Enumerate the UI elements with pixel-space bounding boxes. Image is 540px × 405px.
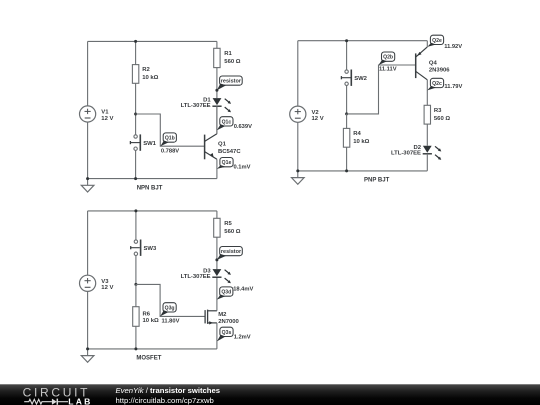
node SW1 bottom rail [134,177,137,180]
node top rail to SW2 [345,39,348,42]
node SW2/R4/base junction [345,112,348,115]
wire base net [136,114,205,146]
caption NPN BJT [137,185,163,191]
diode D1 LTL-307EE [181,97,231,112]
diode D2 LTL-307EE [391,145,441,160]
wire R1 to D1 [216,68,218,99]
svg-text:12 V: 12 V [312,116,324,122]
svg-text:12 V: 12 V [101,285,113,291]
wire V1 bottom [87,122,89,179]
wire Q1 collector [216,106,218,134]
svg-text:resistor: resistor [221,249,242,255]
svg-text:2N3906: 2N3906 [429,68,450,74]
resistor R1 [214,48,241,67]
svg-text:12 V: 12 V [101,116,113,122]
probe Q3s 1.2mV [217,327,251,341]
node top rail to R2 [134,40,137,43]
resistor R4 [343,128,369,147]
svg-text:R4: R4 [353,131,361,137]
svg-text:Q3g: Q3g [165,305,175,311]
svg-text:Q3d: Q3d [221,290,231,296]
svg-text:1.2mV: 1.2mV [234,335,251,341]
svg-text:PNP BJT: PNP BJT [364,178,390,184]
svg-text:resistor: resistor [221,79,242,85]
wire SW1 to bottom rail [135,150,137,178]
svg-text:560 Ω: 560 Ω [224,229,240,235]
switch SW1 [130,134,156,150]
ground 3 [81,349,94,362]
wire R2 to SW1 [135,83,137,135]
wire SW2 top [346,41,348,72]
svg-text:Q2b: Q2b [383,55,393,61]
switch SW3 [131,240,157,256]
svg-text:LTL-307EE: LTL-307EE [181,274,211,280]
wire R6 bottom [135,326,137,349]
wire R3 to D2 [426,124,428,146]
svg-text:Q1e: Q1e [222,160,232,166]
transistor M2 2N7000 [205,310,239,325]
svg-text:11.79V: 11.79V [444,84,462,90]
wire R1 top [216,41,218,48]
resistor R6 [133,307,159,327]
svg-text:Q4: Q4 [429,61,438,67]
probe Q1c 0.639V [217,117,252,131]
CircuitLab logo [20,385,96,405]
wire R4 top [346,114,348,128]
svg-text:MOSFET: MOSFET [136,355,161,361]
svg-text:11.80V: 11.80V [162,319,180,325]
wire SW2 to node [346,86,348,114]
wire base net 2 [347,65,416,114]
wire bottom rail 3 [88,348,217,350]
wire SW3 to node [135,256,137,285]
wire V2 bottom [297,122,299,171]
svg-text:NPN BJT: NPN BJT [137,185,163,191]
svg-text:11.92V: 11.92V [444,44,462,50]
wire top rail 3 (V3+ to R5) [88,210,217,212]
probe Q1e 0.1mV [217,158,251,171]
probe Q1b 0.788V [160,133,179,155]
svg-text:R6: R6 [143,311,151,317]
svg-text:18.4mV: 18.4mV [233,286,253,292]
wire V1 top [87,41,89,106]
wire M2 drain [216,277,218,311]
node V2- ground junction [296,169,299,172]
svg-text:Q1b: Q1b [165,136,175,142]
svg-text:SW3: SW3 [144,246,157,252]
net label resistor (node between R1 and D1) [215,76,242,92]
svg-text:0.639V: 0.639V [234,124,252,130]
svg-text:Q1: Q1 [218,142,227,148]
voltage source V3 [80,275,114,291]
probe Q2b 11.11V [379,52,397,73]
wire Q4 collector [426,80,428,106]
transistor Q1 BC547C [205,134,242,160]
svg-text:560 Ω: 560 Ω [224,59,240,65]
svg-text:V1: V1 [101,110,109,116]
svg-text:10 kΩ: 10 kΩ [143,318,159,324]
svg-text:10 kΩ: 10 kΩ [353,139,369,145]
diode D3 LTL-307EE [181,268,231,283]
svg-text:Q2e: Q2e [432,38,442,44]
node R6 bottom rail [134,347,137,350]
voltage source V2 [290,106,324,122]
footer bar [0,384,540,405]
svg-text:SW1: SW1 [143,141,156,147]
wire gate net [136,284,205,316]
node R4 bottom rail [345,169,348,172]
resistor R5 [214,218,241,237]
svg-text:SW2: SW2 [354,76,367,82]
wire V3 top [87,211,89,275]
wire R5 to D3 [216,237,218,269]
svg-text:11.11V: 11.11V [379,67,397,73]
node V3- ground junction [86,347,89,350]
net label resistor 2 (node between R5 and D3) [215,247,242,262]
svg-text:LTL-307EE: LTL-307EE [181,103,211,109]
voltage source V1 [80,106,114,122]
wire Q4 emitter [426,41,428,47]
probe Q2e 11.92V [427,35,462,50]
wire R5 top [216,211,218,218]
transistor Q4 2N3906 [416,47,451,80]
wire V2 top [297,41,299,107]
wire SW3 top [135,211,137,242]
svg-text:R2: R2 [142,67,150,73]
node SW3/R6/gate junction [134,283,137,286]
svg-text:560 Ω: 560 Ω [434,116,450,122]
wire D2 to bottom rail [426,154,428,171]
node V1- / ground junction [86,177,89,180]
node top rail to SW3 [134,209,137,212]
resistor R3 [424,105,450,124]
svg-text:BC547C: BC547C [218,149,241,155]
caption PNP BJT [364,178,390,184]
svg-text:LTL-307EE: LTL-307EE [391,151,421,157]
svg-text:0.788V: 0.788V [161,149,179,155]
svg-text:Q1c: Q1c [222,119,232,125]
svg-text:Q3s: Q3s [222,330,232,336]
wire R2 top [135,41,137,64]
ground [81,179,94,192]
logo diode [52,399,57,405]
svg-text:LAB: LAB [68,397,92,405]
svg-text:Q2c: Q2c [432,81,442,87]
wire M2 source [216,323,218,349]
svg-text:2N7000: 2N7000 [218,319,239,325]
caption MOSFET [136,355,161,361]
svg-text:0.1mV: 0.1mV [234,164,251,170]
wire bottom rail [88,178,217,180]
ground 2 [292,171,305,184]
switch SW2 [341,70,367,86]
node R2/SW1/base junction [134,113,137,116]
wire top rail 2 (V2+ to Q4 emitter) [298,40,428,42]
probe Q3g 11.80V [160,303,179,325]
svg-text:M2: M2 [218,312,227,318]
resistor R2 [132,65,158,84]
probe Q2c 11.79V [427,78,462,90]
wire D1 to Q1 collector [216,106,218,134]
svg-text:R3: R3 [434,108,442,114]
wire R4 bottom [346,147,348,171]
wire R6 top [135,284,137,306]
svg-text:R5: R5 [224,221,232,227]
svg-text:R1: R1 [224,51,232,57]
svg-text:V2: V2 [312,110,320,116]
probe Q3d 18.4mV [217,286,254,299]
wire V3 bottom [87,291,89,349]
wire Q1 emitter [216,159,218,178]
svg-text:10 kΩ: 10 kΩ [142,75,158,81]
logo resistor zigzag [24,399,52,404]
wire top rail (V1+ to R1) [88,40,217,42]
svg-text:V3: V3 [101,279,109,285]
wire bottom rail 2 [298,170,428,172]
